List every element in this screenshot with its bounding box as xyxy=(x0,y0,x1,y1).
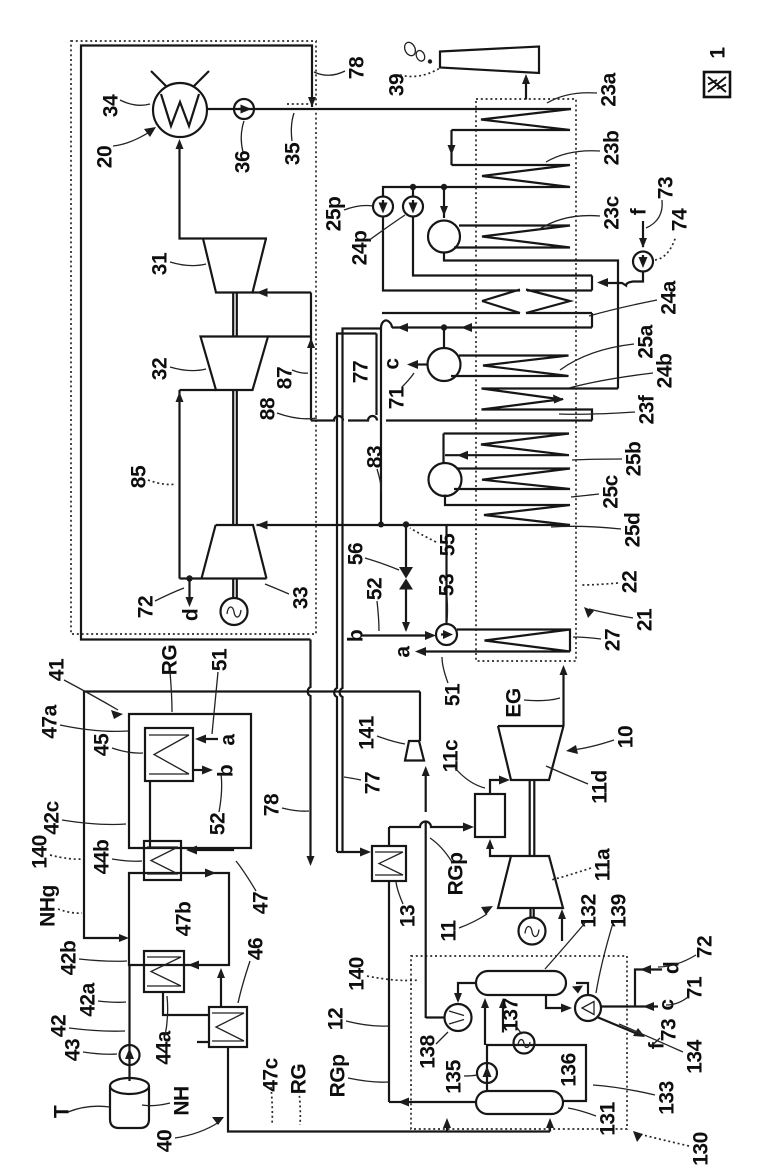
wire turbine 33 inlet steam line xyxy=(257,524,447,526)
svg-text:42b: 42b xyxy=(58,941,81,976)
wire drum 25 feed xyxy=(443,328,445,349)
NH tank 40 xyxy=(110,1086,149,1128)
svg-text:24p: 24p xyxy=(349,231,372,266)
wire hx44a to hx46 link xyxy=(163,992,197,1015)
svg-text:131: 131 xyxy=(597,1101,620,1135)
generator of gas turbine xyxy=(519,918,546,945)
wire flue to chimney xyxy=(525,79,527,100)
svg-text:31: 31 xyxy=(149,252,172,275)
turbine 33 xyxy=(202,525,267,579)
svg-text:52: 52 xyxy=(364,578,387,600)
svg-text:136: 136 xyxy=(558,1053,581,1087)
svg-text:RG: RG xyxy=(159,645,182,676)
wire turbine 32 inlet line left xyxy=(180,389,217,391)
wire f outlet diagonal xyxy=(597,1017,640,1035)
svg-text:36: 36 xyxy=(232,151,255,173)
combustor 12 xyxy=(475,794,505,837)
wire flow arrow on 47b bottom edge xyxy=(188,961,199,970)
svg-text:77: 77 xyxy=(362,772,385,794)
wire duct cap right xyxy=(527,276,592,291)
svg-text:23f: 23f xyxy=(636,394,659,424)
svg-text:140: 140 xyxy=(29,835,52,869)
wire pump 53 top feed xyxy=(445,525,447,624)
svg-text:46: 46 xyxy=(245,938,268,960)
wire pipe 78 arrow onto line 35 xyxy=(308,97,316,107)
svg-text:RGp: RGp xyxy=(327,1055,350,1098)
svg-text:135: 135 xyxy=(443,1059,466,1093)
compressor 138 xyxy=(445,1004,472,1031)
wire turbine 31 inlet arrow xyxy=(257,288,268,297)
condenser 34 circle xyxy=(153,83,207,137)
hx 44a xyxy=(144,951,184,992)
hx 46 xyxy=(209,1007,247,1047)
wire c inlet line xyxy=(601,1005,658,1007)
svg-text:27: 27 xyxy=(602,629,625,651)
svg-text:78: 78 xyxy=(261,793,284,816)
dotted duct 22 (HRSG gas path) xyxy=(476,99,576,661)
coil 25b group legs xyxy=(444,434,570,456)
wire stream b out of hx45 xyxy=(193,769,208,771)
svg-text:141: 141 xyxy=(356,715,379,749)
svg-text:140: 140 xyxy=(346,957,369,991)
turbine 11d xyxy=(498,726,564,780)
svg-text:a: a xyxy=(392,646,415,658)
svg-text:47: 47 xyxy=(250,892,273,914)
svg-text:42: 42 xyxy=(48,1015,71,1037)
svg-text:73: 73 xyxy=(658,1019,681,1041)
svg-text:132: 132 xyxy=(578,894,601,928)
svg-text:42a: 42a xyxy=(77,982,100,1016)
dotted divider feedwater section xyxy=(287,103,316,105)
wire pump 25p discharge (duct second) xyxy=(383,217,520,291)
shaft 31-32 xyxy=(233,293,237,337)
svg-text:22: 22 xyxy=(619,571,642,593)
wire 24b flow arrow xyxy=(553,395,564,404)
turbine 31 xyxy=(203,239,266,293)
svg-text:40: 40 xyxy=(154,1130,177,1152)
svg-text:11a: 11a xyxy=(592,848,615,881)
wire 138 to RGp riser xyxy=(426,1016,445,1018)
svg-text:12: 12 xyxy=(325,1008,348,1030)
wire EG duct riser xyxy=(562,670,564,726)
svg-text:34: 34 xyxy=(100,94,123,117)
coil 25a xyxy=(451,356,569,377)
svg-text:25p: 25p xyxy=(323,197,346,232)
svg-text:21: 21 xyxy=(634,608,657,631)
svg-text:32: 32 xyxy=(149,358,172,380)
dotted boundary steam-plant box xyxy=(71,41,316,634)
box 41 reformer xyxy=(129,714,251,848)
svg-text:23a: 23a xyxy=(598,72,621,106)
svg-text:133: 133 xyxy=(656,1081,679,1115)
svg-text:20: 20 xyxy=(94,146,117,168)
svg-text:RGp: RGp xyxy=(445,853,468,896)
svg-text:88: 88 xyxy=(257,397,280,420)
svg-text:c: c xyxy=(381,358,404,370)
svg-text:11c: 11c xyxy=(440,739,463,772)
pump 36 xyxy=(234,99,254,119)
svg-text:83: 83 xyxy=(364,446,387,468)
dotted box 130 (fuel gas system) xyxy=(411,956,627,1129)
svg-text:11: 11 xyxy=(438,920,461,942)
coil 23a xyxy=(452,109,572,130)
svg-text:137: 137 xyxy=(500,998,523,1032)
svg-text:52: 52 xyxy=(207,813,230,835)
svg-text:51: 51 xyxy=(209,648,232,671)
svg-text:RG: RG xyxy=(288,1064,311,1095)
node dot above drum 25 xyxy=(441,324,447,330)
chimney 39 xyxy=(440,47,539,74)
wire pipe 78 down arrow xyxy=(307,856,315,866)
svg-text:25a: 25a xyxy=(635,324,658,358)
svg-text:44a: 44a xyxy=(153,1030,176,1064)
drum 26 xyxy=(429,463,462,496)
wire 132 bottom to mixer 139 xyxy=(546,995,568,1008)
generator of turbine 33 xyxy=(221,598,248,625)
pump 135 xyxy=(477,1063,497,1083)
wire combustor to turbine inlet xyxy=(490,780,505,794)
wire compressor air to combustor xyxy=(490,843,511,856)
wire line 35 condensate xyxy=(207,108,571,110)
wire 136 loop xyxy=(487,1045,586,1101)
wire line 55 junction dots xyxy=(378,522,384,528)
wire RGp to combustor with hop xyxy=(389,822,470,827)
svg-text:71: 71 xyxy=(386,386,409,409)
node dots on 187 line xyxy=(410,184,416,190)
svg-text:53: 53 xyxy=(436,574,459,596)
svg-text:71: 71 xyxy=(684,976,707,999)
wire drum 24 feed xyxy=(443,187,445,218)
wire hx46 up arrow xyxy=(220,972,222,1007)
svg-text:25c: 25c xyxy=(600,474,623,508)
svg-text:a: a xyxy=(217,734,240,746)
svg-text:25d: 25d xyxy=(622,513,645,548)
svg-text:33: 33 xyxy=(290,587,313,609)
wire flow arrow on 47b top edge xyxy=(205,869,216,878)
wire drum 26 feed xyxy=(442,434,444,464)
wire pipe 47 from box41 to hx44b xyxy=(190,848,233,850)
wire valve 56 line xyxy=(405,525,407,631)
svg-text:41: 41 xyxy=(46,658,69,681)
wire RG feeds into capsule 131 xyxy=(447,1122,550,1132)
wire arrows on 327 line xyxy=(397,323,472,332)
vessel 131 xyxy=(476,1091,563,1114)
wire drum 24 downcomer to 24b xyxy=(444,253,618,389)
wire air intake arrow xyxy=(561,914,563,941)
svg-text:d: d xyxy=(661,962,684,974)
wire NHg arrow into 47b xyxy=(119,934,129,942)
wire pipe 78 upper run xyxy=(81,46,312,640)
turbine 32 xyxy=(201,337,269,391)
svg-text:11d: 11d xyxy=(589,770,612,804)
shaft gas turbine xyxy=(530,780,535,856)
svg-text:24b: 24b xyxy=(654,354,677,389)
valve 56 xyxy=(399,567,413,590)
svg-text:b: b xyxy=(345,630,368,642)
svg-text:24a: 24a xyxy=(658,280,681,314)
svg-text:139: 139 xyxy=(608,894,631,928)
wire pump 24p discharge (duct top) xyxy=(413,217,592,276)
wire condenser inlet from turbine 31 xyxy=(180,144,268,239)
vessel 132 xyxy=(476,971,566,995)
wire c outflow from drum 25 xyxy=(412,363,428,365)
condenser 34 W element xyxy=(161,94,199,126)
drum 25 xyxy=(428,348,461,381)
svg-text:42c: 42c xyxy=(41,800,64,834)
svg-text:55: 55 xyxy=(437,533,460,556)
condenser 34 antenna lines xyxy=(151,71,209,86)
wire feeds into 132 bottom xyxy=(485,1001,503,1045)
hx 45 xyxy=(145,728,193,781)
wire spray injection into 24a cap xyxy=(601,272,643,286)
coil 27 xyxy=(420,630,570,652)
shaft 32-33 xyxy=(233,390,237,525)
wire 85 up arrow xyxy=(176,392,184,402)
svg-text:25b: 25b xyxy=(623,442,646,477)
wire turbine 33 inlet arrow xyxy=(257,521,268,530)
mixer 139 xyxy=(575,995,601,1021)
wire RGp riser to 141 xyxy=(425,770,427,1018)
coil 25b lower V xyxy=(454,469,570,490)
wire 23a to 23b connector xyxy=(450,130,452,165)
wire f inlet top xyxy=(642,221,644,247)
node d extraction dot xyxy=(186,575,192,581)
wire RG line from hx46 down xyxy=(228,1047,550,1132)
wire 87 up arrow xyxy=(307,338,315,348)
pipe 83 riser xyxy=(380,329,382,525)
coil 25c xyxy=(445,495,570,526)
wire 132 to compressor 138 xyxy=(458,983,476,1000)
wire RGp return from 131 xyxy=(403,1101,476,1103)
coil 24a diamond xyxy=(482,290,570,314)
svg-text:56: 56 xyxy=(345,543,368,565)
wire line 88 xyxy=(311,416,592,421)
svg-text:78: 78 xyxy=(346,56,369,79)
coil 25d top leg part of 55 line xyxy=(447,524,571,526)
wire NHg recycle line 691 xyxy=(83,690,420,692)
box 47b xyxy=(129,873,229,965)
coil 24b / 23f serpentine xyxy=(482,389,619,421)
svg-text:43: 43 xyxy=(62,1039,85,1061)
figure glyph 図 xyxy=(704,72,730,97)
device 137 circle xyxy=(514,1033,535,1054)
coil 23c xyxy=(454,226,570,248)
wire 139 to 132 xyxy=(576,983,588,995)
wire condenser inlet arrow xyxy=(176,139,184,149)
wire lower duct cap xyxy=(591,313,593,328)
hx 13 xyxy=(372,846,406,881)
wire lower duct line 313 xyxy=(382,312,592,314)
svg-text:d: d xyxy=(180,609,203,621)
svg-text:35: 35 xyxy=(282,142,305,165)
svg-text:85: 85 xyxy=(128,465,151,488)
svg-text:72: 72 xyxy=(694,936,717,958)
shaft compressor-generator xyxy=(531,908,534,918)
pump 24p xyxy=(403,197,423,217)
pump 25p xyxy=(373,197,393,217)
svg-text:1: 1 xyxy=(707,47,730,59)
svg-text:47b: 47b xyxy=(173,902,196,937)
svg-text:T: T xyxy=(51,1105,74,1118)
wire b line to pump 53 xyxy=(362,634,432,636)
svg-text:NHg: NHg xyxy=(37,885,60,927)
pipe 77 double riser xyxy=(334,329,381,853)
shaft 33-generator xyxy=(233,579,237,599)
wire hx46 left stubs xyxy=(197,1015,209,1042)
svg-text:23c: 23c xyxy=(601,195,624,229)
wire extraction 72 to d xyxy=(188,579,190,603)
svg-text:72: 72 xyxy=(135,596,158,618)
wire crossover 87 vertical xyxy=(310,293,312,421)
coil 23b xyxy=(444,165,570,187)
pump 74 xyxy=(633,252,653,272)
svg-text:73: 73 xyxy=(655,177,678,199)
smoke puffs xyxy=(403,41,418,58)
wire RGp through hx13 xyxy=(388,827,390,1102)
svg-text:130: 130 xyxy=(690,1132,713,1166)
wire riser 85 from turbine 33 exhaust xyxy=(178,390,180,579)
svg-text:134: 134 xyxy=(684,1039,707,1073)
compressor 11a xyxy=(498,856,563,908)
svg-text:13: 13 xyxy=(397,905,420,927)
pipe 77 box right edge xyxy=(375,334,377,416)
wire T feed to tank xyxy=(68,1106,110,1112)
svg-text:39: 39 xyxy=(386,74,409,96)
wire lower duct line 327 with hook xyxy=(392,326,592,328)
wire turbine 32 exhaust to 87 xyxy=(268,335,311,337)
pump 53 xyxy=(436,624,457,645)
wire pump risers to 187 line xyxy=(383,187,444,196)
wire a outflow arrow xyxy=(415,647,426,656)
svg-text:74: 74 xyxy=(669,208,692,231)
wire pipe 78 lower run with jog xyxy=(308,640,311,862)
wire turbine 31 inlet line xyxy=(253,291,312,293)
pump 43 xyxy=(120,1045,140,1065)
svg-text:138: 138 xyxy=(417,1034,440,1068)
wire d inlet line xyxy=(635,970,662,1007)
wire stream a into hx45 xyxy=(200,738,218,740)
svg-text:10: 10 xyxy=(615,726,638,748)
svg-text:b: b xyxy=(215,765,238,777)
svg-text:44b: 44b xyxy=(91,840,114,875)
wire NH3 riser tank to box47b xyxy=(128,965,130,1081)
wire hx45 lower connector xyxy=(149,781,151,848)
svg-text:23b: 23b xyxy=(601,131,624,166)
wire turbine 33 exhaust line xyxy=(180,577,267,579)
wire NHg left drop into box 47b xyxy=(84,692,124,939)
svg-text:45: 45 xyxy=(91,733,114,756)
nozzle 141 xyxy=(405,741,424,761)
svg-text:51: 51 xyxy=(442,683,465,706)
drum 24 xyxy=(428,221,460,253)
wire 141 top to recycle line 691 xyxy=(419,692,421,742)
svg-text:NH: NH xyxy=(171,1086,194,1115)
wire 77 feed into hx13 xyxy=(337,851,366,853)
svg-text:77: 77 xyxy=(350,361,373,383)
hx 44b xyxy=(144,841,181,880)
svg-text:47c: 47c xyxy=(260,1057,283,1091)
svg-text:EG: EG xyxy=(503,688,526,718)
svg-text:47a: 47a xyxy=(39,704,62,738)
